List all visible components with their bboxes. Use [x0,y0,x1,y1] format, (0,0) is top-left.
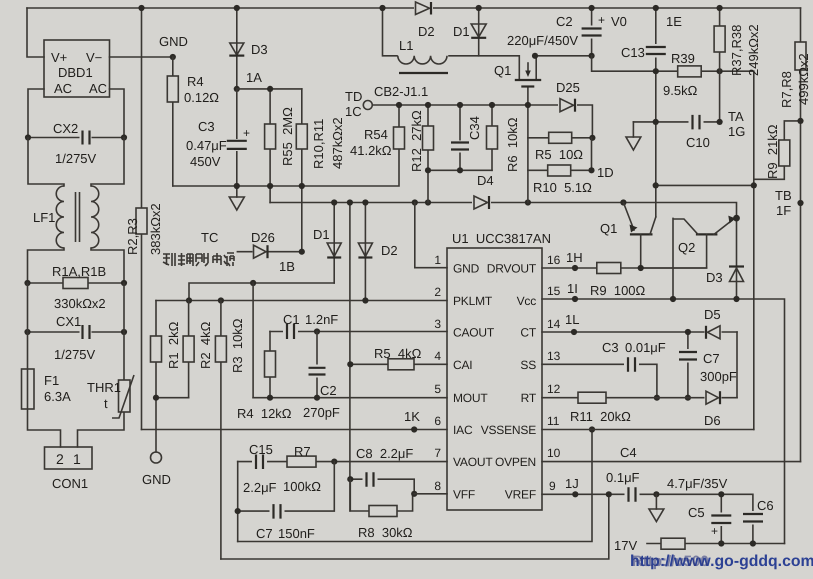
svg-text:1C: 1C [345,104,362,119]
svg-text:1: 1 [73,451,81,467]
svg-text:R2,R3: R2,R3 [125,218,140,255]
svg-text:R12 27kΩ: R12 27kΩ [409,110,424,172]
node R12 bottom on rail [425,199,431,205]
resistor R37,R38 249kOx2 [719,8,721,122]
svg-text:1D: 1D [597,165,614,180]
wire Q1 source / gate leg [527,86,529,202]
diode D25 [558,98,577,113]
svg-text:10: 10 [547,446,561,460]
capacitor C34 [459,105,461,170]
svg-text:15: 15 [547,284,561,298]
svg-text:4: 4 [434,349,441,363]
resistor R11 20k [578,392,606,403]
svg-text:D1: D1 [453,24,470,39]
svg-text:GND: GND [159,34,188,49]
svg-text:C10: C10 [686,135,710,150]
capacitor C7 150nF [270,504,285,519]
resistor R8 30k [350,479,412,511]
svg-text:RT: RT [521,391,537,405]
resistor R9 21k [754,121,801,179]
svg-text:1A: 1A [246,70,262,85]
svg-text:R7: R7 [294,444,311,459]
node driver emitter [620,199,626,205]
capacitor C2 270pF [316,332,318,398]
svg-text:1F: 1F [776,203,791,218]
svg-text:V−: V− [86,50,102,65]
diode D3 top [236,8,238,89]
svg-text:VREF: VREF [505,488,536,502]
svg-text:499kΩx2: 499kΩx2 [796,53,811,105]
diode D3 lower [736,218,738,299]
resistor R2,R3 383kOx2 [141,8,143,430]
resistor R9 100ohm [597,263,621,274]
svg-text:C2: C2 [556,14,573,29]
node top border R2,R3 [138,5,144,11]
capacitor C15 2.2uF [252,454,267,469]
svg-text:2: 2 [56,451,64,467]
capacitor C3 0.01uF [624,357,639,372]
svg-text:F1: F1 [44,373,59,388]
svg-text:D25: D25 [556,80,580,95]
node CX1 left [24,329,30,335]
wire R1A,R1B row [28,282,125,284]
IC U1 UCC3817AN [447,248,542,510]
wire RT row [542,397,737,399]
svg-text:CB2-J1.1: CB2-J1.1 [374,84,428,99]
capacitor C5 [720,494,722,543]
wire Vout to C13 row [592,56,754,430]
node R1A left [24,280,30,286]
wire VSSENSE bottom leg [238,430,592,542]
wire PKLMT row [156,300,447,302]
svg-text:CT: CT [520,326,536,340]
svg-text:U1 UCC3817AN: U1 UCC3817AN [452,231,551,246]
capacitor CX1 1/275V [80,325,92,340]
svg-text:1K: 1K [404,409,420,424]
svg-text:GND: GND [142,472,171,487]
node pin1 branch [412,199,418,205]
svg-text:1: 1 [434,253,441,267]
svg-text:GND: GND [453,262,480,276]
svg-text:+: + [598,13,605,27]
resistor on 17V line [661,538,685,549]
svg-text:CAI: CAI [453,358,472,372]
wire aux node row y283 [189,283,334,301]
svg-text:41.2kΩ: 41.2kΩ [350,143,392,158]
label daofuzhudianyuan (to auxiliary supply) [163,253,234,266]
wire LF1 right leg [91,138,124,187]
svg-text:R37,R38: R37,R38 [729,25,744,76]
svg-text:LF1: LF1 [33,210,55,225]
rail y202 [270,203,736,219]
svg-text:TD: TD [345,89,362,104]
svg-text:220μF/450V: 220μF/450V [507,33,578,48]
svg-text:TC: TC [201,230,218,245]
wire IAC row 1K [142,429,448,431]
wire V- to GND node [110,56,173,58]
svg-text:150nF: 150nF [278,526,315,541]
svg-text:V0: V0 [611,14,627,29]
svg-text:R9 100Ω: R9 100Ω [590,283,646,298]
svg-text:C2: C2 [320,383,337,398]
svg-text:IAC: IAC [453,423,473,437]
wire TA sense column mid [656,184,754,186]
svg-text:D6: D6 [704,413,721,428]
svg-text:R4: R4 [187,74,204,89]
resistor R39 9.5k [678,66,702,77]
svg-text:C8 2.2μF: C8 2.2μF [356,446,413,461]
svg-text:D4: D4 [477,173,494,188]
svg-text:450V: 450V [190,154,221,169]
transistor Q1 driver [623,203,634,231]
wire TC auxiliary row [237,251,301,253]
svg-text:383kΩx2: 383kΩx2 [148,203,163,255]
svg-text:C3: C3 [602,340,619,355]
svg-text:L1: L1 [399,38,413,53]
svg-text:1I: 1I [567,281,578,296]
svg-text:0.47μF: 0.47μF [186,138,227,153]
svg-text:1B: 1B [279,259,295,274]
svg-text:14: 14 [547,317,561,331]
node GND top [170,54,176,60]
svg-text:C1: C1 [283,312,300,327]
diode D1 top [478,8,480,56]
wire R12/C34/R6 bottom tie [428,169,492,171]
svg-text:AC: AC [89,81,107,96]
svg-text:CX2: CX2 [53,121,78,136]
svg-text:MOUT: MOUT [453,391,488,405]
svg-text:R4 12kΩ: R4 12kΩ [237,406,292,421]
wire C7 box [238,462,335,542]
wire LF1 right bottom [91,248,124,283]
resistor R7 100k [287,456,316,467]
svg-text:DBD1: DBD1 [58,65,93,80]
svg-text:R6 10kΩ: R6 10kΩ [505,117,520,172]
svg-text:Q1: Q1 [600,221,617,236]
resistor R4 12k [269,332,271,398]
resistor R1 2k [155,301,157,453]
svg-text:C4: C4 [620,445,637,460]
svg-text:12: 12 [547,382,561,396]
svg-text:1/275V: 1/275V [55,151,97,166]
svg-text:R1A,R1B: R1A,R1B [52,264,106,279]
wire CX1 row [28,331,125,333]
svg-text:D2: D2 [381,243,398,258]
capacitor C4 0.1uF [625,487,640,502]
svg-text:D3: D3 [251,42,268,57]
svg-text:1J: 1J [565,476,579,491]
diode D1 mid [333,203,335,284]
svg-text:R3 10kΩ: R3 10kΩ [230,318,245,373]
capacitor C8 2.2uF [363,472,378,487]
wire SS row with C3 [542,364,657,397]
svg-text:9.5kΩ: 9.5kΩ [663,83,698,98]
capacitor C13 [655,8,657,217]
svg-text:2: 2 [434,285,441,299]
svg-text:C15: C15 [249,442,273,457]
ground symbol under C3 [236,186,238,197]
wire CB2 row y105 [372,105,592,138]
svg-text:D1: D1 [313,227,330,242]
svg-text:1H: 1H [566,250,583,265]
wire pin1 GND leg [415,203,447,268]
svg-text:3: 3 [434,317,441,331]
svg-text:1G: 1G [728,124,745,139]
wire gnd rail y186 [173,105,399,186]
svg-text:C7: C7 [703,351,720,366]
wire MOUT net row y398 [253,397,447,399]
svg-text:R11 20kΩ: R11 20kΩ [570,409,631,424]
svg-text:5: 5 [434,382,441,396]
inductor L1 [383,8,398,56]
svg-text:R10 5.1Ω: R10 5.1Ω [533,180,592,195]
wire C1 branch leg [252,283,254,398]
svg-text:487kΩx2: 487kΩx2 [330,117,345,169]
svg-text:R8 30kΩ: R8 30kΩ [358,525,413,540]
svg-text:C13: C13 [621,45,645,60]
svg-text:+: + [243,126,250,140]
wire VFF row [414,493,447,495]
fuse F1 6.3A [22,369,35,409]
svg-text:6: 6 [434,414,441,428]
resistor R5 10ohm [528,137,593,139]
resistor R7,R8 499kOx2 [795,42,806,70]
svg-text:CON1: CON1 [52,476,88,491]
node CX2 left [25,134,31,140]
diode D2 mid [364,203,366,301]
svg-text:R2 4kΩ: R2 4kΩ [198,321,213,369]
svg-text:THR1: THR1 [87,380,121,395]
svg-text:AC: AC [54,81,72,96]
svg-text:9: 9 [549,479,556,493]
terminal TD 1C [363,101,372,110]
node 1A [234,86,240,92]
diode D26 [253,245,269,260]
bridge rectifier DBD1 [44,40,110,97]
svg-text:CX1: CX1 [56,314,81,329]
svg-text:Rttp://v500: Rttp://v500 [632,553,709,570]
wire AC right leg [110,89,125,138]
svg-text:SS: SS [520,358,536,372]
node C1 right [314,328,320,334]
mosfet Q1 [515,79,541,81]
resistor R12 27k [427,105,429,203]
svg-text:C7: C7 [256,526,273,541]
svg-text:8: 8 [434,479,441,493]
wire R1 R2 bottoms [156,397,189,399]
svg-text:Vcc: Vcc [517,294,537,308]
diode D6 [705,390,722,405]
svg-text:100kΩ: 100kΩ [283,479,321,494]
svg-text:R1 2kΩ: R1 2kΩ [166,321,181,369]
resistor R10,R11 487kOx2 [301,89,303,252]
connector CON1 [45,447,93,469]
svg-text:0.01μF: 0.01μF [625,340,666,355]
svg-text:0.1μF: 0.1μF [606,470,640,485]
svg-text:R39: R39 [671,51,695,66]
svg-text:Q1: Q1 [494,63,511,78]
inductor LF1 common-mode choke [56,186,64,248]
svg-text:249kΩx2: 249kΩx2 [746,24,761,76]
svg-text:1E: 1E [666,14,682,29]
svg-text:270pF: 270pF [303,405,340,420]
wire F1 branch [28,283,61,447]
wire D5/D6 box right [736,332,738,398]
svg-text:CAOUT: CAOUT [453,326,495,340]
svg-text:Q2: Q2 [678,240,695,255]
ground symbol VREF [655,494,657,509]
wire AC left leg [28,89,44,138]
svg-text:C6: C6 [757,498,774,513]
svg-text:R55 2MΩ: R55 2MΩ [280,107,295,166]
svg-text:D2: D2 [418,24,435,39]
node D26 right [299,249,305,255]
svg-text:OVPEN: OVPEN [495,455,536,469]
resistor R2 4k [188,301,190,398]
svg-text:t: t [104,396,108,411]
node C1 branch [250,280,256,286]
transistor Q2 driver [696,233,718,235]
capacitor C2 220uF/450V [591,8,593,56]
svg-text:C5: C5 [688,505,705,520]
wire CX2 row [28,137,124,139]
svg-text:R10,R11: R10,R11 [311,119,326,169]
svg-text:C3: C3 [198,119,215,134]
wire x350 branch [349,203,351,512]
svg-text:7: 7 [434,446,441,460]
wire C8 branch [350,479,414,494]
svg-text:D5: D5 [704,307,721,322]
svg-text:C34: C34 [467,116,482,140]
node C15/R7 right [331,459,337,465]
node R1A right [121,280,127,286]
svg-text:VSSENSE: VSSENSE [481,423,536,437]
svg-text:R54: R54 [364,127,388,142]
svg-text:17V: 17V [614,538,637,553]
wire VREF row [542,494,753,543]
svg-text:TA: TA [728,109,744,124]
node TB 1F [797,200,803,206]
capacitor C6 [742,511,764,525]
svg-text:VAOUT: VAOUT [453,455,493,469]
capacitor CX2 1/275V [80,130,92,145]
wire 17V row [647,543,785,545]
svg-text:PKLMT: PKLMT [453,294,493,308]
svg-text:TB: TB [775,188,792,203]
svg-text:R9 21kΩ: R9 21kΩ [765,124,780,179]
svg-text:DRVOUT: DRVOUT [487,262,537,276]
svg-text:V+: V+ [51,50,67,65]
svg-text:0.12Ω: 0.12Ω [184,90,219,105]
resistor R54 41.2k [394,127,405,149]
resistor R5 4k on CAI [350,363,447,365]
svg-text:13: 13 [547,349,561,363]
svg-text:2.2μF: 2.2μF [243,480,277,495]
svg-text:4.7μF/35V: 4.7μF/35V [667,476,728,491]
resistor R55 2M [269,89,271,203]
svg-text:330kΩx2: 330kΩx2 [54,296,106,311]
wire THR1 branch [78,283,125,447]
wire left V+ loop [27,8,44,57]
svg-text:11: 11 [547,414,560,428]
wire 1A row [237,88,302,90]
resistor R10 5.1ohm [528,138,592,171]
ground symbol near C10 [632,122,634,137]
capacitor C7 300pF [687,332,689,398]
wire LF1 left bottom [28,248,65,283]
svg-text:D3: D3 [706,270,723,285]
svg-text:300pF: 300pF [700,369,737,384]
wire top border rail [27,7,801,9]
svg-text:16: 16 [547,253,561,267]
wire bottom VREF rail [221,494,609,559]
resistor R1A,R1B 330kOx2 [63,278,88,289]
wire CT row [542,331,737,333]
diode D2 top on border [414,1,433,16]
capacitor C1 1.2nF [283,324,298,339]
wire LF1 left leg [28,138,64,187]
node C3 bottom [234,183,240,189]
thermistor THR1 [119,380,131,412]
capacitor C10 [633,121,719,123]
svg-text:VFF: VFF [453,488,475,502]
capacitor C3 0.47uF 450V [236,89,238,186]
terminal GND bottom [151,452,162,463]
svg-text:1.2nF: 1.2nF [305,312,338,327]
node R10 5.1 left [525,199,531,205]
svg-text:6.3A: 6.3A [44,389,71,404]
node CX2 right [121,134,127,140]
wire CAOUT row [270,331,447,333]
right border with R7,R8 [800,8,802,462]
diode D4 on rail [472,195,491,210]
resistor R3 10k [220,301,222,560]
resistor R6 10k [491,105,493,170]
svg-text:R7,R8: R7,R8 [779,71,794,108]
svg-text:D26: D26 [251,230,275,245]
node CX1 right [121,329,127,335]
wire Vcc row [542,299,785,544]
wire VAOUT row [238,461,447,463]
resistor R4 0.12ohm [172,57,174,186]
svg-text:1/275V: 1/275V [54,347,96,362]
diode D5 [705,325,722,340]
wire OVPEN row [542,461,801,463]
svg-text:+: + [711,524,718,538]
wire DRVOUT row with R9 100 [542,267,707,269]
svg-text:R5 10Ω: R5 10Ω [535,147,583,162]
svg-text:R5 4kΩ: R5 4kΩ [374,346,422,361]
svg-text:1L: 1L [565,312,579,327]
wire VSSENSE row [542,429,754,431]
wire boost node row [449,56,519,79]
